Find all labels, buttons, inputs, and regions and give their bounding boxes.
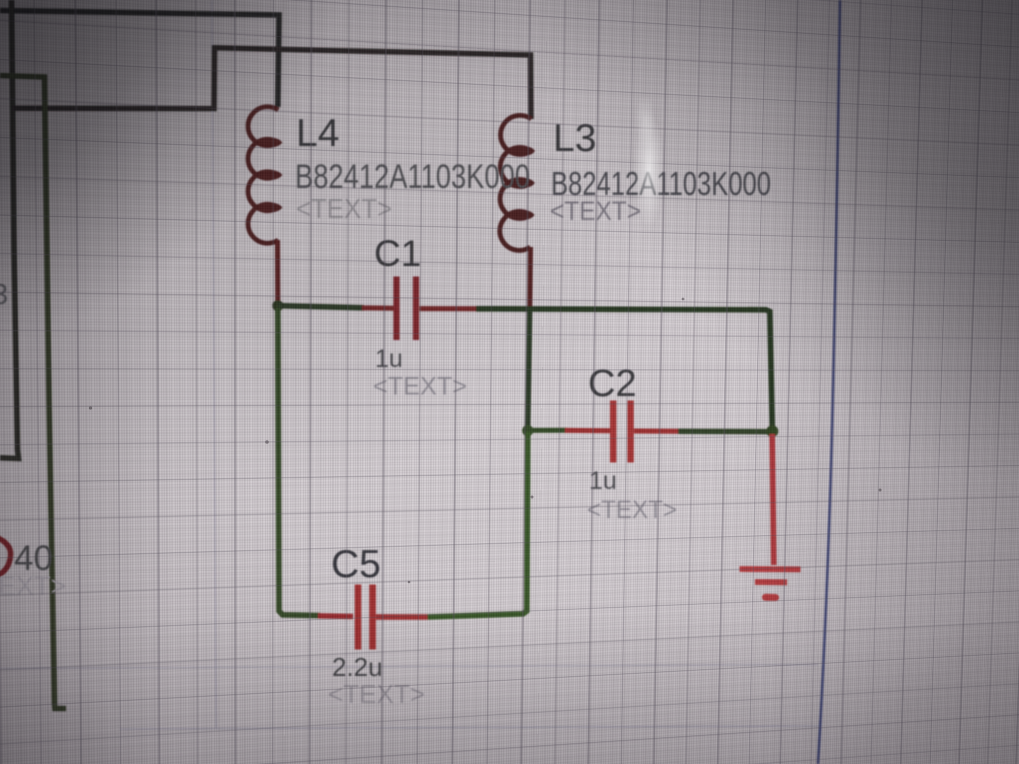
capacitor C5 left pin bbox=[318, 613, 353, 619]
wire: vertical at far left from top bbox=[0, 0, 19, 459]
capacitor C2 left plate bbox=[610, 401, 616, 463]
capacitor C5 left plate bbox=[355, 585, 362, 650]
wire: vertical from C1 junction down to C5 bbox=[278, 308, 320, 616]
capacitor C1 left plate bbox=[393, 277, 399, 341]
wire: long left vertical net bbox=[0, 76, 66, 709]
inductor L3 bottom pin bbox=[527, 247, 533, 308]
capacitor C5 right plate bbox=[369, 585, 376, 650]
inductor L4 coil bbox=[248, 107, 278, 244]
capacitor C2 right plate bbox=[627, 401, 633, 463]
capacitor C1 right plate bbox=[413, 277, 419, 341]
frame right border (blue vertical line) bbox=[818, 0, 840, 764]
inductor L4 bottom pin bbox=[275, 240, 280, 303]
ground symbol bar 1 bbox=[740, 566, 801, 572]
ground symbol bar 2 bbox=[755, 579, 787, 585]
capacitor C1 left pin bbox=[362, 305, 395, 310]
capacitor C5 right pin bbox=[376, 614, 428, 619]
wire: C2 right green segment bbox=[678, 429, 768, 435]
wire: C5 right green segment up to C2 left junction bbox=[428, 432, 528, 617]
frame bottom border line bbox=[120, 726, 819, 729]
wire: net at top-left feeding L4 bbox=[0, 11, 279, 108]
capacitor C2 right pin bbox=[634, 429, 678, 434]
wire: C2 left green segment bbox=[528, 428, 567, 433]
node: junction dot C2 right / GND bbox=[766, 425, 778, 437]
inductor L4 coil cusp blobs bbox=[261, 138, 282, 212]
capacitor C2 left pin bbox=[565, 428, 611, 433]
dust specks bbox=[89, 298, 882, 584]
frame column divider line bbox=[212, 0, 216, 728]
wire: L3 pin down to C2 left junction bbox=[528, 311, 530, 427]
wire: stepped net feeding L3 top bbox=[12, 48, 531, 119]
ground symbol bar 3 bbox=[766, 594, 776, 601]
supply wire: GND stem bbox=[772, 434, 774, 565]
inductor L3 coil bbox=[500, 115, 532, 250]
node: junction dot C2 left bbox=[522, 425, 533, 436]
capacitor C1 right pin bbox=[420, 306, 477, 311]
wire: C1 right green segment to corner down to C2 right junction bbox=[476, 309, 772, 428]
wire: C1 left green segment bbox=[278, 306, 364, 308]
frame row divider line bbox=[0, 665, 818, 669]
node: junction dot L4/C1/C5 net bbox=[272, 300, 283, 311]
partial inductor symbol at left edge bbox=[0, 537, 11, 576]
inductor L3 coil cusp blobs bbox=[513, 146, 534, 219]
